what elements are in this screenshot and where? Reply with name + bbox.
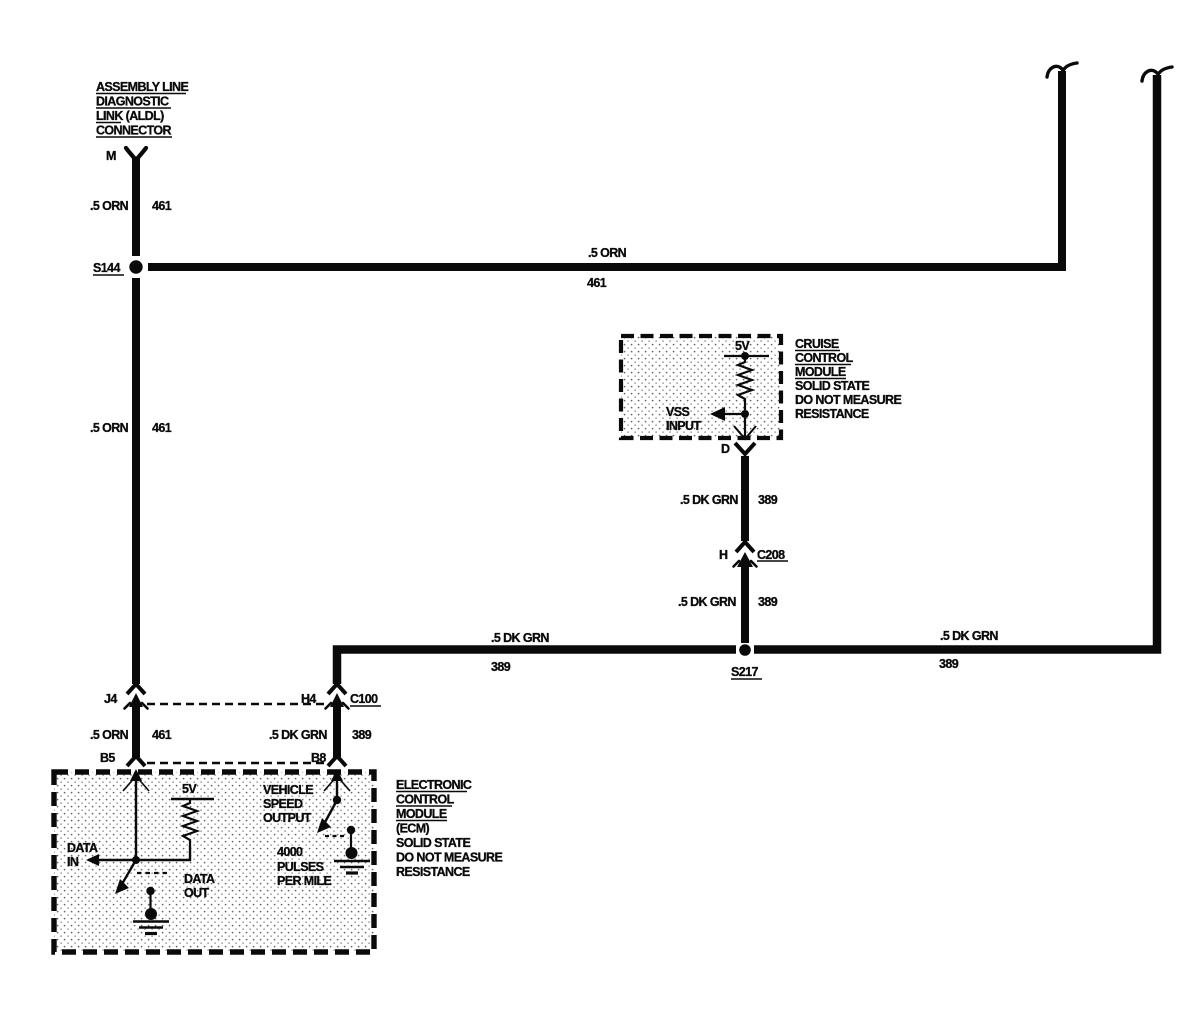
svg-text:CONTROL: CONTROL [795,351,854,365]
svg-text:.5 ORN: .5 ORN [90,728,129,742]
svg-text:5V: 5V [735,339,750,353]
svg-text:.5 DK GRN: .5 DK GRN [680,493,738,507]
junction dot data node [132,856,140,864]
wire 389 horizontal left section with corner down to H4 [337,650,736,685]
connector B5 female half [127,756,145,766]
svg-text:389: 389 [758,493,778,507]
H4 male arrow up [326,693,349,709]
wire 389 vertical C208 to D [741,456,749,541]
cruise module title [795,337,901,421]
splice S144 [129,260,142,273]
resistor R ECM [183,799,197,846]
svg-text:DATA: DATA [184,872,215,886]
continuation squiggle left riser [1047,63,1077,77]
ECM title [396,778,502,879]
connector C208 female half [736,542,754,552]
svg-text:461: 461 [587,276,607,290]
label S144 [93,261,124,275]
wire 389 right riser vertical (continuation to S217 line) [754,75,1157,650]
svg-text:.5 ORN: .5 ORN [90,421,129,435]
connector B8 female half [328,756,346,766]
connector M female half [126,148,146,160]
svg-text:CONTROL: CONTROL [396,793,455,807]
svg-text:S144: S144 [93,261,120,275]
svg-text:DO NOT MEASURE: DO NOT MEASURE [396,851,502,865]
connector H4 female half [328,684,346,694]
wire VSS node to D pin inside module [744,414,746,438]
junction dot VSS node [741,410,749,418]
svg-text:389: 389 [352,728,372,742]
svg-text:OUTPUT: OUTPUT [263,811,312,825]
svg-text:389: 389 [758,595,778,609]
label: ALDL connector title [96,80,188,138]
svg-text:J4: J4 [104,692,117,706]
svg-text:C100: C100 [350,692,378,706]
svg-text:461: 461 [152,199,172,213]
svg-text:DATA: DATA [67,841,98,855]
wire 461 J4 to B5 [132,707,140,757]
connector D female half [735,443,755,454]
svg-text:LINK (ALDL): LINK (ALDL) [96,109,164,123]
data-in line with left arrow [86,854,136,866]
svg-text:.5 DK GRN: .5 DK GRN [678,595,736,609]
label VSS INPUT [666,405,701,433]
svg-text:DIAGNOSTIC: DIAGNOSTIC [96,95,169,109]
svg-text:B5: B5 [100,751,115,765]
wire 389 vertical S217 to C208 [741,566,749,643]
svg-text:INPUT: INPUT [666,419,701,433]
label VEHICLE SPEED OUTPUT [263,783,313,825]
svg-text:IN: IN [67,855,79,869]
svg-text:SPEED: SPEED [263,797,303,811]
connector C100 dashed line [147,703,326,706]
svg-text:.5 DK GRN: .5 DK GRN [491,631,549,645]
svg-text:MODULE: MODULE [396,807,447,821]
label S217 [731,665,762,679]
svg-text:.5 ORN: .5 ORN [588,246,627,260]
wire 461 lower vertical (S144 to J4) [132,278,140,684]
ground right ECM [334,847,370,873]
wire contact to ground left [149,893,151,912]
svg-text:461: 461 [152,728,172,742]
svg-text:.5 DK GRN: .5 DK GRN [269,728,327,742]
svg-text:H4: H4 [301,692,316,706]
svg-text:5V: 5V [182,782,197,796]
wire .5 ORN horizontal from S144 to right riser with corner [148,71,1062,267]
label C100 [350,692,381,706]
ground left ECM [133,908,169,934]
switch linkage dashed [137,872,168,874]
label 4000 PULSES PER MILE [277,845,331,888]
vss switch arm [317,802,336,833]
svg-text:H: H [719,548,728,562]
svg-text:RESISTANCE: RESISTANCE [396,865,470,879]
svg-text:PER MILE: PER MILE [277,874,331,888]
svg-text:SOLID STATE: SOLID STATE [396,836,470,850]
svg-text:RESISTANCE: RESISTANCE [795,407,869,421]
svg-text:D: D [721,442,730,456]
electronic control module box [54,772,374,952]
svg-text:4000: 4000 [277,845,303,859]
svg-text:VEHICLE: VEHICLE [263,783,313,797]
svg-text:CRUISE: CRUISE [795,337,839,351]
connector C208 male arrow up [734,552,757,567]
ECM connector dashed line B5/B8 [147,762,326,765]
wire B8 inside ECM [336,778,338,797]
5V rail cruise [724,355,769,357]
data out contact dot [146,887,154,895]
svg-text:389: 389 [491,660,511,674]
wire contact to ground right [350,832,352,850]
svg-text:OUT: OUT [184,886,210,900]
svg-text:ASSEMBLY LINE: ASSEMBLY LINE [96,80,188,94]
svg-text:C208: C208 [757,548,785,562]
svg-text:S217: S217 [731,665,758,679]
svg-text:461: 461 [152,421,172,435]
J4 male arrow up [125,693,148,709]
connector J4 female half [127,684,145,694]
vss switch linkage dashed [325,835,345,837]
svg-text:SOLID STATE: SOLID STATE [795,379,869,393]
label C208 [757,548,788,562]
svg-text:389: 389 [939,657,959,671]
wire 389 H4 to B8 [333,707,341,757]
splice S217 [739,644,751,656]
wire 461 upper vertical (M to S144) [132,159,140,256]
data out switch arm [115,860,136,894]
svg-text:VSS: VSS [666,405,689,419]
svg-text:.5 DK GRN: .5 DK GRN [940,629,998,643]
wire B5 inside ECM down to data node [135,778,137,860]
resistor R cruise [738,358,752,410]
B8 entry male arrow into ECM [324,769,350,791]
B5 entry male arrow into ECM [123,769,149,791]
continuation squiggle right riser [1142,67,1172,81]
junction dot at 5V rail [741,352,749,360]
svg-text:(ECM): (ECM) [396,822,430,836]
svg-text:CONNECTOR: CONNECTOR [96,124,172,138]
svg-text:MODULE: MODULE [795,365,846,379]
svg-text:.5 ORN: .5 ORN [90,199,129,213]
label DATA OUT [184,872,215,900]
svg-text:ELECTRONIC: ELECTRONIC [396,778,472,792]
svg-text:PULSES: PULSES [277,860,324,874]
5V rail ECM [171,798,214,800]
svg-text:DO NOT MEASURE: DO NOT MEASURE [795,393,901,407]
VSS input line with arrow [710,407,745,421]
vss contact dot [347,826,355,834]
connector D male half chevron down [734,426,756,439]
svg-text:M: M [106,149,116,163]
wire resistor to data-in line [136,846,190,860]
vss switch pivot dot [333,796,341,804]
cruise control module box [621,336,781,438]
label DATA IN [67,841,98,869]
